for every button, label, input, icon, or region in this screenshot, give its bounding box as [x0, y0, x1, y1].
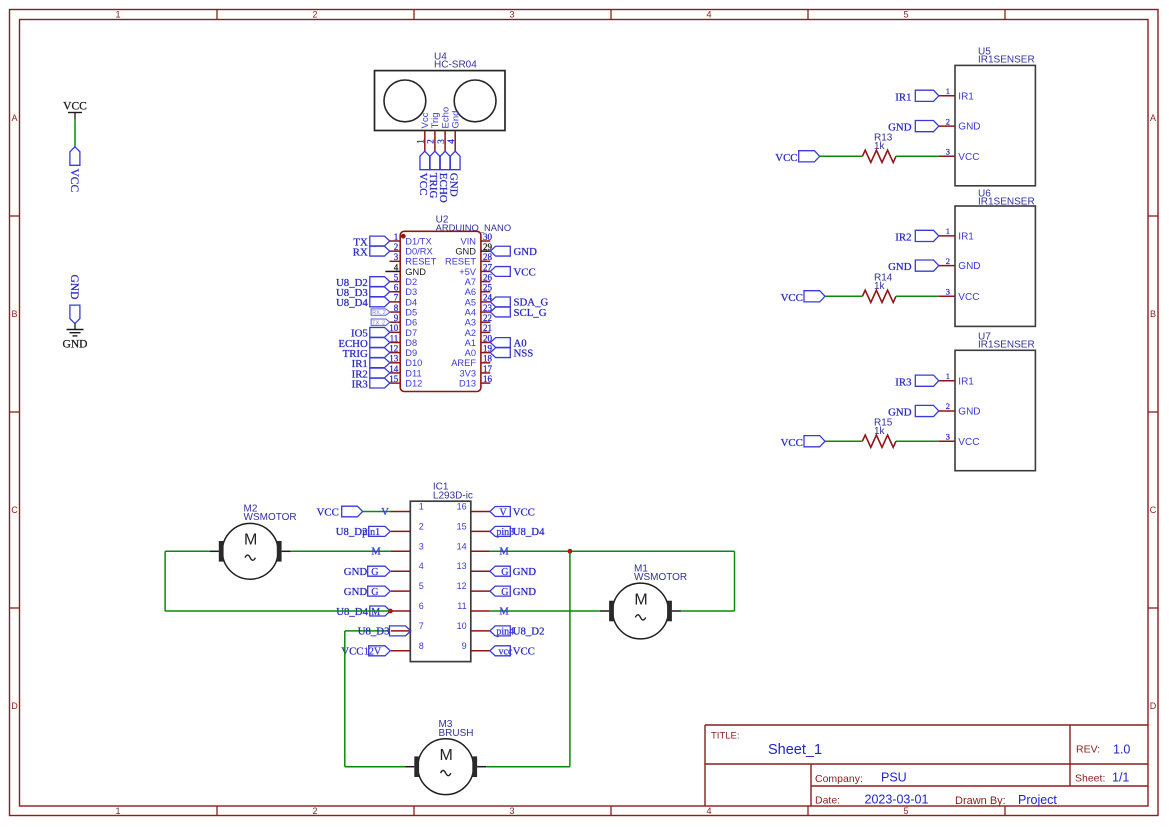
svg-text:B: B [11, 309, 17, 319]
svg-text:9: 9 [462, 641, 467, 651]
svg-text:11: 11 [457, 601, 466, 611]
svg-text:Drawn By:: Drawn By: [955, 795, 1006, 807]
global label IR3 on U7 pin 1 [895, 375, 939, 388]
motor M3 BRUSH [405, 719, 486, 794]
svg-text:12V: 12V [364, 647, 382, 658]
svg-text:8: 8 [419, 641, 424, 651]
global label VCC (vertical) [68, 147, 80, 193]
svg-text:VCC: VCC [958, 152, 979, 163]
hierarchical label G and global label GND on IC1 pin 13 [490, 566, 536, 578]
svg-text:28: 28 [483, 252, 493, 262]
svg-text:VCC: VCC [958, 437, 979, 448]
wire [734, 551, 736, 611]
svg-text:A: A [1150, 113, 1156, 123]
small hierarchical label RX_2 on U2 pin 8 [371, 309, 390, 316]
svg-text:WSMOTOR: WSMOTOR [244, 512, 297, 523]
global label U8_D4 on U2 pin 7 [336, 297, 390, 309]
svg-text:13: 13 [389, 354, 399, 364]
svg-text:30: 30 [483, 232, 493, 242]
motor M2 WSMOTOR [210, 504, 297, 580]
svg-text:U8_D4: U8_D4 [513, 526, 545, 538]
global label GND on U5 pin 2 [888, 121, 939, 134]
svg-text:PSU: PSU [881, 770, 907, 784]
hierarchical label pin3 and global label U8_D4 on IC1 pin 15 [490, 526, 545, 538]
svg-text:IR1: IR1 [895, 91, 911, 103]
svg-text:GND: GND [344, 566, 368, 578]
global label VCC feeding R15 [781, 436, 825, 449]
svg-text:A4: A4 [465, 307, 476, 317]
resistor R15 1k [862, 417, 896, 447]
svg-text:2: 2 [426, 139, 436, 144]
svg-text:1/1: 1/1 [1112, 770, 1129, 784]
global label IR3 on U2 pin 15 [352, 378, 390, 390]
global label GND on U2 pin 29 [490, 246, 537, 258]
svg-text:GND: GND [405, 267, 426, 277]
global label VCC on U4 pin 1 [417, 151, 430, 195]
svg-text:6: 6 [394, 283, 399, 293]
power symbol VCC [63, 101, 87, 120]
svg-text:1: 1 [946, 371, 950, 381]
svg-text:2: 2 [946, 401, 950, 411]
svg-text:22: 22 [483, 313, 492, 323]
svg-text:6: 6 [419, 601, 424, 611]
svg-text:15: 15 [457, 521, 467, 531]
svg-text:M: M [634, 591, 647, 608]
svg-text:VCC: VCC [68, 169, 80, 193]
global label TX on U2 pin 1 [353, 236, 389, 248]
global label GND on U4 pin 4 [447, 151, 460, 196]
global label SDA_G on U2 pin 24 [490, 297, 548, 309]
svg-text:9: 9 [394, 313, 399, 323]
svg-text:1: 1 [419, 502, 424, 512]
svg-text:D6: D6 [405, 318, 417, 328]
global label IR1 on U5 pin 1 [895, 90, 939, 103]
wire [825, 295, 862, 297]
svg-text:TITLE:: TITLE: [711, 731, 740, 742]
svg-text:D8: D8 [405, 338, 417, 348]
wire [74, 119, 76, 147]
svg-text:G: G [501, 587, 508, 598]
svg-text:IR1: IR1 [958, 91, 974, 102]
hierarchical label 12V and global label VCC on IC1 pin 8 [341, 646, 390, 658]
svg-text:2: 2 [946, 256, 950, 266]
hierarchical label M and global label U8_D4 on IC1 pin 6 [336, 606, 390, 618]
svg-text:VCC: VCC [781, 292, 803, 304]
wire [569, 551, 571, 766]
svg-text:IR1: IR1 [958, 376, 974, 387]
svg-text:D12: D12 [405, 379, 422, 389]
svg-text:M: M [499, 606, 509, 617]
svg-text:1: 1 [946, 226, 950, 236]
svg-text:U8_D4: U8_D4 [336, 297, 368, 309]
svg-text:V: V [500, 507, 508, 518]
svg-text:A1: A1 [465, 338, 476, 348]
svg-text:8: 8 [394, 303, 399, 313]
svg-text:TRIG: TRIG [427, 173, 439, 199]
svg-text:GND: GND [514, 246, 538, 258]
hierarchical flag and global label U8_D3 on IC1 pin 7 [358, 626, 411, 638]
wire [490, 610, 600, 612]
svg-text:GND: GND [513, 586, 537, 598]
svg-text:2: 2 [312, 806, 317, 816]
global label GND on U7 pin 2 [888, 405, 939, 418]
small hierarchical label TX_2 on U2 pin 9 [371, 319, 390, 326]
svg-text:26: 26 [483, 272, 493, 282]
wire [165, 550, 210, 552]
svg-text:2: 2 [419, 521, 424, 531]
svg-text:5: 5 [903, 806, 908, 816]
motor M1 WSMOTOR [600, 563, 687, 639]
junction [388, 609, 393, 614]
svg-text:NSS: NSS [514, 347, 534, 359]
svg-text:TX_2: TX_2 [372, 320, 385, 326]
svg-text:D1/TX: D1/TX [405, 236, 431, 246]
svg-text:GND: GND [68, 275, 80, 300]
wire [486, 766, 570, 768]
global label SCL_G on U2 pin 23 [490, 307, 546, 319]
hierarchical label G and global label GND on IC1 pin 12 [490, 586, 536, 598]
svg-text:IR2: IR2 [895, 232, 911, 244]
svg-text:+5V: +5V [459, 267, 477, 277]
svg-text:4: 4 [394, 262, 399, 272]
svg-text:RESET: RESET [405, 257, 436, 267]
svg-text:VCC: VCC [781, 437, 803, 449]
power symbol GND [63, 324, 88, 351]
svg-text:A6: A6 [465, 287, 476, 297]
svg-text:WSMOTOR: WSMOTOR [634, 572, 687, 583]
svg-text:2: 2 [946, 116, 950, 126]
svg-text:3: 3 [946, 287, 950, 297]
svg-text:3: 3 [436, 139, 446, 144]
svg-text:7: 7 [419, 621, 424, 631]
svg-text:7: 7 [394, 293, 399, 303]
svg-text:3: 3 [946, 431, 950, 441]
hierarchical label pin4 and global label U8_D2 on IC1 pin 10 [490, 626, 545, 638]
wire [896, 295, 939, 297]
svg-text:D11: D11 [405, 368, 421, 378]
svg-text:4: 4 [706, 806, 711, 816]
svg-text:Sheet_1: Sheet_1 [768, 742, 822, 758]
svg-text:G: G [371, 567, 378, 578]
svg-text:VCC: VCC [513, 646, 535, 658]
svg-text:A3: A3 [465, 318, 476, 328]
hierarchical label G and global label GND on IC1 pin 5 [344, 586, 391, 598]
svg-text:1: 1 [115, 10, 120, 20]
svg-text:3: 3 [946, 147, 950, 157]
svg-text:15: 15 [389, 374, 399, 384]
svg-text:GND: GND [63, 339, 88, 351]
svg-text:5: 5 [394, 272, 399, 282]
svg-text:U8_D3: U8_D3 [358, 626, 390, 638]
wire [896, 440, 939, 442]
svg-text:3: 3 [419, 541, 424, 551]
svg-text:RX: RX [353, 246, 368, 258]
svg-text:2: 2 [312, 10, 317, 20]
svg-text:D7: D7 [405, 328, 417, 338]
hierarchical label vcc and global label VCC on IC1 pin 9 [490, 646, 535, 658]
svg-text:10: 10 [457, 621, 467, 631]
svg-text:1: 1 [394, 232, 399, 242]
svg-text:RESET: RESET [445, 257, 476, 267]
junction [568, 549, 573, 554]
svg-text:5: 5 [903, 10, 908, 20]
svg-text:M: M [499, 547, 509, 558]
svg-text:IR3: IR3 [895, 376, 911, 388]
svg-text:GND: GND [958, 261, 980, 272]
resistor R13 1k [862, 132, 896, 162]
wire [291, 550, 391, 552]
svg-text:4: 4 [446, 139, 456, 144]
svg-text:A7: A7 [465, 277, 476, 287]
IR sensor U6 IR1SENSER [939, 188, 1036, 326]
svg-text:L293D-ic: L293D-ic [433, 490, 473, 501]
global label U8_D3 on U2 pin 6 [336, 287, 390, 299]
svg-text:12: 12 [457, 581, 467, 591]
svg-text:16: 16 [457, 502, 467, 512]
svg-text:VCC: VCC [317, 506, 339, 518]
svg-text:GND: GND [344, 586, 368, 598]
global label NSS on U2 pin 19 [490, 347, 533, 359]
svg-text:D5: D5 [405, 307, 417, 317]
svg-text:12: 12 [389, 343, 398, 353]
svg-text:Sheet:: Sheet: [1075, 773, 1105, 785]
U2 left pins 1-15 with numbers and names [385, 232, 436, 389]
svg-text:RX_2: RX_2 [372, 310, 386, 316]
svg-text:GND: GND [888, 261, 912, 273]
svg-text:D9: D9 [405, 348, 417, 358]
svg-text:D2: D2 [405, 277, 417, 287]
svg-text:U8_D2: U8_D2 [336, 526, 368, 538]
wire [490, 550, 735, 552]
IR sensor U7 IR1SENSER [939, 331, 1036, 470]
svg-text:GND: GND [513, 566, 537, 578]
global label A0 on U2 pin 20 [490, 337, 526, 349]
svg-text:17: 17 [483, 364, 493, 374]
svg-text:10: 10 [389, 323, 399, 333]
global label ECHO on U2 pin 11 [338, 338, 389, 350]
hierarchical label G and global label GND on IC1 pin 4 [344, 566, 391, 578]
svg-text:GND: GND [958, 122, 980, 133]
svg-text:1: 1 [416, 139, 426, 144]
U2 right pins 30-16 with numbers and names [445, 232, 493, 389]
svg-text:B: B [1150, 309, 1156, 319]
global label GND on U6 pin 2 [888, 260, 939, 273]
svg-text:21: 21 [483, 323, 492, 333]
global label VCC feeding R13 [775, 151, 819, 164]
resistor R14 1k [862, 272, 896, 302]
svg-text:A: A [11, 113, 17, 123]
global label GND (vertical) [68, 275, 80, 324]
svg-text:M: M [371, 547, 381, 558]
wire [825, 440, 862, 442]
svg-text:pin4: pin4 [496, 627, 514, 638]
svg-text:IR1: IR1 [958, 232, 974, 243]
svg-text:GND: GND [447, 173, 459, 197]
svg-text:IR3: IR3 [352, 378, 368, 390]
global label VCC on U2 pin 27 [490, 266, 535, 278]
svg-text:D: D [11, 701, 18, 711]
svg-text:D3: D3 [405, 287, 417, 297]
svg-text:1.0: 1.0 [1113, 742, 1130, 756]
wire [820, 155, 863, 157]
svg-text:A2: A2 [465, 328, 476, 338]
ultrasonic sensor U4 HC-SR04 [375, 51, 506, 151]
svg-text:M: M [440, 747, 453, 764]
svg-text:16: 16 [483, 374, 493, 384]
svg-text:U8_D4: U8_D4 [336, 606, 368, 618]
svg-text:U8_D2: U8_D2 [513, 626, 545, 638]
svg-text:1: 1 [115, 806, 120, 816]
svg-text:14: 14 [389, 364, 399, 374]
svg-text:18: 18 [483, 354, 493, 364]
svg-text:1: 1 [946, 86, 950, 96]
global label TRIG on U4 pin 2 [427, 151, 440, 198]
svg-text:C: C [1150, 505, 1157, 515]
svg-text:13: 13 [457, 561, 467, 571]
global label U8_D2 on U2 pin 5 [336, 277, 390, 289]
global label VCC on IC1 pin 1 [317, 506, 363, 518]
wire [344, 631, 346, 767]
svg-text:VCC: VCC [775, 152, 797, 164]
svg-text:IR1SENSER: IR1SENSER [978, 55, 1035, 66]
svg-text:HC-SR04: HC-SR04 [434, 60, 477, 71]
svg-text:GND: GND [455, 247, 476, 257]
svg-text:BRUSH: BRUSH [439, 728, 474, 739]
wire [165, 610, 390, 612]
global label ECHO on U4 pin 3 [437, 151, 450, 203]
svg-text:G: G [501, 567, 508, 578]
svg-text:VCC: VCC [514, 266, 536, 278]
svg-text:VIN: VIN [461, 236, 477, 246]
wire [345, 630, 389, 632]
svg-text:V: V [381, 507, 389, 518]
svg-text:D13: D13 [459, 379, 476, 389]
global label IR2 on U6 pin 1 [895, 230, 939, 243]
global label RX on U2 pin 2 [353, 246, 390, 258]
svg-text:2023-03-01: 2023-03-01 [865, 792, 929, 806]
hierarchical label pin1 and global label U8_D2 on IC1 pin 2 [336, 526, 391, 538]
svg-text:14: 14 [457, 541, 467, 551]
svg-text:GND: GND [958, 407, 980, 418]
microcontroller U2 ARDUINO_NANO [400, 215, 511, 392]
global label TRIG on U2 pin 12 [343, 348, 390, 360]
svg-text:D10: D10 [405, 358, 422, 368]
svg-text:M: M [371, 607, 380, 618]
svg-text:4: 4 [706, 10, 711, 20]
svg-text:Company:: Company: [815, 773, 863, 785]
svg-text:5: 5 [419, 581, 424, 591]
wire [345, 766, 405, 768]
svg-text:Gnd: Gnd [450, 111, 461, 129]
wire [896, 155, 939, 157]
svg-text:VCC: VCC [513, 506, 535, 518]
svg-text:pin3: pin3 [496, 527, 514, 538]
svg-text:3: 3 [509, 806, 514, 816]
svg-text:11: 11 [390, 333, 399, 343]
svg-text:4: 4 [419, 561, 424, 571]
svg-text:REV:: REV: [1076, 743, 1100, 755]
svg-text:D: D [1150, 701, 1157, 711]
svg-text:AREF: AREF [451, 358, 476, 368]
global label IR2 on U2 pin 14 [352, 368, 390, 380]
svg-text:M: M [244, 532, 257, 549]
svg-text:2: 2 [394, 242, 399, 252]
svg-text:D0/RX: D0/RX [405, 247, 432, 257]
wire [681, 610, 734, 612]
svg-text:VCC: VCC [63, 101, 87, 113]
svg-text:Date:: Date: [815, 794, 840, 806]
svg-text:VCC: VCC [958, 292, 979, 303]
svg-text:vcc: vcc [499, 647, 513, 658]
motor driver IC1 L293D-ic [391, 481, 490, 661]
global label IO5 on U2 pin 10 [351, 327, 390, 339]
global label VCC feeding R14 [781, 291, 825, 304]
IR sensor U5 IR1SENSER [939, 46, 1036, 186]
svg-text:SCL_G: SCL_G [514, 307, 547, 319]
svg-text:C: C [11, 505, 18, 515]
title block [705, 725, 1148, 807]
svg-text:A5: A5 [465, 297, 476, 307]
svg-text:D4: D4 [405, 297, 417, 307]
svg-text:3: 3 [509, 10, 514, 20]
wire [164, 551, 166, 611]
wire [363, 511, 391, 513]
svg-text:3V3: 3V3 [459, 368, 476, 378]
svg-text:IR1SENSER: IR1SENSER [978, 340, 1035, 351]
svg-text:3: 3 [394, 252, 399, 262]
svg-text:Project: Project [1018, 793, 1057, 807]
hierarchical label V and global label VCC on IC1 pin 16 [490, 506, 535, 518]
svg-text:A0: A0 [465, 348, 476, 358]
svg-text:25: 25 [483, 283, 493, 293]
svg-text:G: G [371, 587, 378, 598]
global label IR1 on U2 pin 13 [352, 358, 390, 370]
